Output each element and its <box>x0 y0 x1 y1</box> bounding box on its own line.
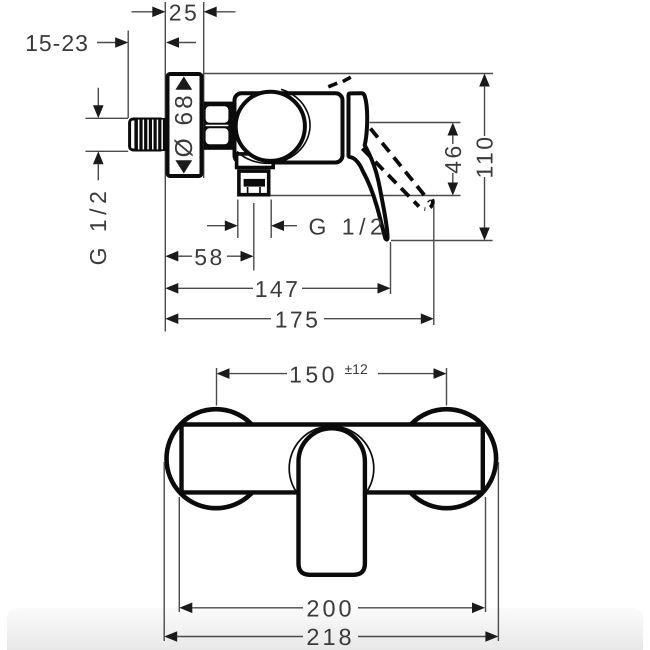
escutcheon diameter arrow up <box>175 77 192 90</box>
right escutcheon circle front view <box>397 409 496 508</box>
cartridge dome circle <box>236 92 305 161</box>
outlet G 1/2 pointers and label <box>207 214 387 240</box>
bottom 110 extension line <box>391 240 493 242</box>
svg-text:15-23: 15-23 <box>25 30 89 56</box>
dimension 110 vertical <box>472 74 498 241</box>
dimension 58 <box>165 244 253 270</box>
top extension line <box>204 73 493 75</box>
mixer body bar front view <box>182 425 483 493</box>
svg-text:218: 218 <box>306 624 354 650</box>
outlet left extension line <box>237 200 239 239</box>
hex union nut <box>204 102 235 150</box>
outlet right extension line <box>270 200 272 239</box>
dimension 150 plus-minus 12 <box>217 361 447 388</box>
svg-text:46: 46 <box>440 143 466 173</box>
200 left extension line <box>178 497 180 612</box>
handle open-position top dashes <box>328 77 351 87</box>
handle open-position dashed tip arc <box>425 199 433 209</box>
escutcheon front extension line <box>203 2 205 178</box>
svg-text:±12: ±12 <box>345 361 368 377</box>
200 right extension line <box>485 497 487 612</box>
handle open-position dashed edge lower <box>362 149 419 207</box>
mixer body side view <box>235 93 343 162</box>
label diameter 68 rotated <box>171 92 198 157</box>
threaded wall nipple <box>130 118 166 151</box>
handle open-position dashed edge upper <box>371 129 430 202</box>
svg-text:150: 150 <box>289 362 338 388</box>
dimension 200 <box>179 595 485 621</box>
outlet nipple box <box>239 171 269 195</box>
pipe bottom extension line <box>86 150 129 152</box>
218 right extension line <box>497 462 499 641</box>
escutcheon plate side view <box>168 74 202 176</box>
svg-text:175: 175 <box>275 306 321 332</box>
dimension 175 <box>165 306 434 332</box>
upper 46 extension line <box>370 122 461 124</box>
218 left extension line <box>163 462 165 641</box>
outlet centre line <box>253 203 255 271</box>
svg-text:147: 147 <box>255 276 301 302</box>
dimension 25 <box>132 0 236 25</box>
footer shaded band <box>7 608 643 650</box>
150 left extension line <box>216 368 218 406</box>
dimension 15-23 <box>25 30 196 56</box>
svg-text:110: 110 <box>472 135 498 179</box>
thread start extension line <box>127 31 129 119</box>
dimension 218 <box>164 624 498 650</box>
svg-text:25: 25 <box>169 0 199 25</box>
cartridge cover thin circle <box>289 426 374 511</box>
dimension 147 <box>165 276 390 302</box>
open handle tip extension line <box>433 206 435 326</box>
svg-text:Ø 68: Ø 68 <box>171 92 198 157</box>
outlet coupling box <box>237 154 274 168</box>
dimension 46 vertical <box>440 123 466 196</box>
svg-text:58: 58 <box>194 244 224 270</box>
escutcheon diameter arrow down <box>175 160 192 173</box>
svg-text:G 1/2: G 1/2 <box>309 214 388 240</box>
handle side view <box>349 93 388 239</box>
svg-text:G 1/2: G 1/2 <box>85 187 111 266</box>
handle front view <box>299 428 365 574</box>
wall extension line <box>164 2 166 332</box>
pipe top extension line <box>86 117 129 119</box>
handle tip extension line <box>390 242 392 294</box>
svg-text:200: 200 <box>306 595 354 621</box>
label G 1/2 left rotated <box>85 187 111 266</box>
left escutcheon circle front view <box>167 409 266 508</box>
pipe diameter arrows <box>93 88 104 181</box>
cartridge dome thin arc <box>237 89 310 163</box>
lower 46 extension line <box>271 195 461 197</box>
150 right extension line <box>446 368 448 406</box>
